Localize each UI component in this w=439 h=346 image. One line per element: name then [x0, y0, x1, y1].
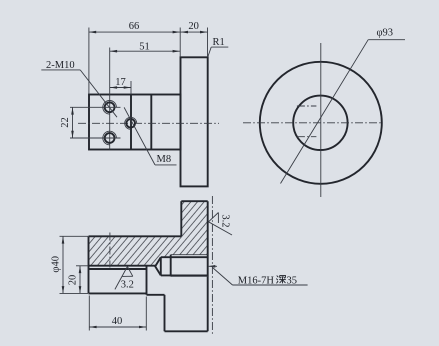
phi93 leader [281, 40, 369, 184]
flange section outline [180, 201, 182, 236]
hole horizontal centerlines / 22 extensions [70, 106, 121, 108]
M16 drill cone point [155, 257, 161, 275]
svg-text:20: 20 [68, 275, 79, 286]
M10 hole bottom (thread) [105, 133, 115, 143]
17 right extension at x=131 [130, 81, 132, 95]
M10 hole top (thread) [105, 102, 115, 112]
M10 hole centerlines (short) [297, 105, 317, 107]
dimension 20 (flange) [207, 28, 209, 58]
surface finish 3.2 (flange right face) [209, 222, 233, 235]
edge line at x=151.3 [150, 95, 152, 150]
dimension 22 [72, 107, 74, 138]
svg-text:20: 20 [188, 21, 199, 32]
svg-text:φ40: φ40 [51, 256, 62, 273]
dimension 17 [110, 87, 131, 89]
M16 tapped hole: core (minor dia) [161, 256, 208, 258]
svg-text:51: 51 [139, 42, 150, 53]
M10 hole column centerline / 51 extension [109, 48, 111, 150]
dimension 40 (flat length) [88, 296, 90, 331]
surface finish 3.2 (bottom of flat) [115, 267, 128, 290]
flange outline (phi93 x 20) [181, 57, 208, 186]
svg-text:3.2: 3.2 [220, 214, 231, 227]
edge line at x=131 [130, 95, 132, 150]
body outline (cylinder phi40 x 66) [89, 95, 181, 150]
svg-text:φ93: φ93 [377, 28, 394, 39]
horizontal centerline [78, 122, 219, 124]
horizontal centerline [243, 122, 383, 124]
svg-text:M8: M8 [157, 154, 172, 165]
M16 thread major dia (thin) [171, 254, 208, 256]
svg-text:R1: R1 [213, 37, 225, 48]
body circle phi40 [293, 96, 347, 150]
dimension 20 (half height) [76, 265, 88, 267]
label M8 [124, 107, 155, 164]
svg-text:40: 40 [112, 316, 123, 327]
step to flange [147, 294, 165, 296]
axis centerline right of flange [211, 196, 213, 334]
hatched section area [89, 201, 208, 266]
M16 leader arrow [208, 265, 215, 268]
svg-text:M16-7H: M16-7H [238, 275, 275, 286]
svg-text:22: 22 [60, 117, 71, 128]
bar (sectioned plate) outline [89, 235, 182, 237]
svg-text:2-M10: 2-M10 [46, 60, 75, 71]
dimension 66 [88, 28, 90, 95]
svg-text:35: 35 [287, 275, 298, 286]
lower exterior of body (flat, 40 long) [89, 268, 147, 270]
dimension 51 [110, 50, 180, 52]
svg-text:66: 66 [129, 21, 140, 32]
flange circle phi93 [260, 62, 382, 184]
vertical centerline [320, 43, 322, 197]
svg-text:17: 17 [115, 77, 126, 88]
svg-text:3.2: 3.2 [121, 279, 134, 290]
M8 hole (thread) [126, 119, 135, 128]
M10 hole centerline in section [109, 233, 111, 268]
dimension phi40 [60, 235, 89, 237]
